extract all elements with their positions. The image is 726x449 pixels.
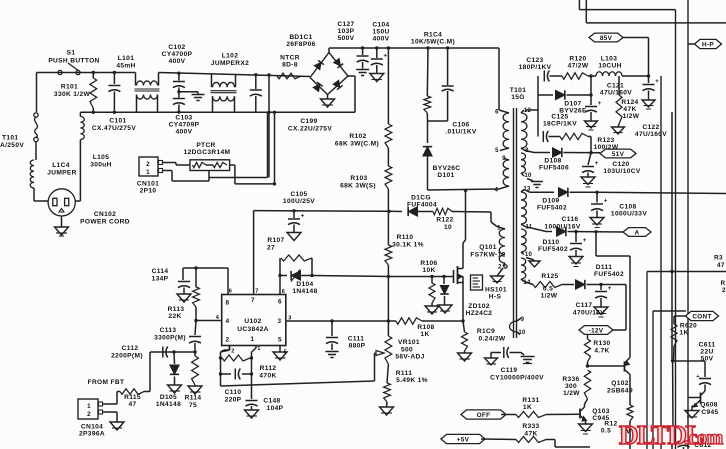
svg-text:3300P(M): 3300P(M): [154, 335, 186, 342]
svg-text:9: 9: [521, 317, 525, 323]
svg-text:.01U/1KV: .01U/1KV: [445, 129, 477, 136]
label R103: [340, 175, 376, 190]
svg-text:56V-ADJ: 56V-ADJ: [395, 354, 424, 361]
T101 pin 2: [498, 265, 502, 271]
svg-text:R333: R333: [522, 423, 539, 430]
svg-text:C103: C103: [175, 115, 192, 122]
inductor L103: [588, 72, 650, 78]
capacitor C148: [245, 401, 259, 419]
resistor R124: [612, 76, 625, 134]
svg-text:7: 7: [251, 297, 255, 304]
svg-text:47/2W: 47/2W: [568, 63, 589, 70]
label R3xx right: [714, 255, 725, 270]
label C114: [152, 268, 169, 283]
svg-text:300: 300: [565, 383, 577, 390]
svg-text:1000U/16V: 1000U/16V: [544, 224, 580, 231]
wire bridge plus: [329, 48, 499, 53]
capacitor C113: [189, 321, 201, 354]
watermark DLTDL.com: [619, 420, 724, 449]
svg-text:R1C9: R1C9: [477, 328, 495, 335]
svg-text:+: +: [595, 161, 599, 167]
svg-text:400V: 400V: [169, 58, 186, 65]
svg-text:4: 4: [495, 188, 499, 194]
zener ZD102: [438, 277, 452, 314]
svg-text:C106: C106: [452, 122, 469, 129]
svg-text:H-S: H-S: [489, 294, 502, 301]
wire node x269: [267, 73, 270, 177]
svg-text:FROM FBT: FROM FBT: [88, 379, 125, 386]
label R1C4: [411, 32, 455, 46]
T101 winding 13-11: [521, 190, 526, 227]
wire C611 top: [673, 361, 705, 377]
resistor R114: [188, 352, 202, 394]
IC U102: [222, 295, 286, 346]
svg-text:26F8P06: 26F8P06: [286, 41, 315, 48]
wire VR101 wiper: [221, 346, 375, 387]
svg-text:1/2W: 1/2W: [541, 293, 558, 300]
resistor R111: [380, 364, 394, 415]
svg-text:8D-8: 8D-8: [282, 62, 298, 69]
svg-text:134P: 134P: [152, 276, 169, 283]
svg-text:1: 1: [257, 346, 260, 352]
label C120: [603, 161, 640, 175]
wire pin1 drop: [252, 346, 257, 400]
svg-text:T101: T101: [510, 87, 526, 94]
thermistor NTCR: [277, 73, 301, 79]
wire bridge AC return: [276, 76, 355, 112]
ground bridge: [321, 95, 335, 108]
svg-text:R107: R107: [267, 237, 284, 244]
svg-text:Q101: Q101: [479, 244, 497, 251]
svg-text:NTCR: NTCR: [280, 55, 300, 62]
label L102: [211, 53, 249, 68]
resistor R1C4: [424, 46, 431, 121]
label D105: [156, 394, 181, 408]
label HS101: [485, 287, 507, 301]
svg-text:10CUH: 10CUH: [598, 63, 621, 70]
capacitor C116: [569, 232, 587, 267]
label R125: [541, 273, 559, 300]
svg-text:1N4148: 1N4148: [292, 288, 317, 295]
T101 winding 6-5: [499, 110, 509, 151]
svg-text:D105: D105: [160, 394, 177, 401]
flag OFF: [461, 410, 506, 419]
T101 winding 9-4: [499, 159, 509, 190]
ground Q608: [685, 406, 699, 418]
svg-text:L102: L102: [222, 53, 238, 60]
svg-text:R115: R115: [124, 394, 141, 401]
svg-text:CN102: CN102: [94, 211, 116, 218]
label NTCR: [280, 55, 300, 69]
svg-text:10: 10: [524, 173, 532, 179]
label C101: [116, 55, 135, 70]
label R114: [185, 395, 202, 410]
svg-text:47U/160V: 47U/160V: [600, 90, 632, 97]
svg-text:1: 1: [497, 226, 501, 232]
wire bus top1: [579, 0, 675, 10]
svg-text:47: 47: [717, 262, 725, 269]
svg-text:D107: D107: [564, 101, 581, 108]
capacitor C121: [585, 101, 602, 130]
svg-text:ZD102: ZD102: [468, 303, 490, 310]
wire rail to pin6: [498, 48, 500, 110]
resistor R12x: [627, 404, 633, 449]
heatsink HS101: [471, 275, 483, 290]
label D109: [537, 198, 567, 212]
svg-text:C121: C121: [607, 83, 624, 90]
label C102: [162, 44, 193, 65]
svg-text:+: +: [598, 101, 602, 107]
label D111: [594, 264, 624, 278]
resistor R125: [524, 282, 574, 288]
svg-text:100U/25V: 100U/25V: [283, 198, 315, 205]
svg-text:JUMPER: JUMPER: [47, 170, 77, 177]
svg-text:2P396A: 2P396A: [79, 431, 105, 438]
label R113: [168, 306, 185, 320]
svg-text:OFF: OFF: [477, 412, 491, 419]
T101 pin 13: [523, 187, 531, 193]
wire pin8 top: [183, 266, 228, 294]
label R333: [522, 423, 539, 438]
svg-text:1N4148: 1N4148: [156, 401, 181, 408]
resistor R108: [396, 318, 463, 324]
label L104: [47, 162, 77, 177]
svg-text:51V: 51V: [612, 151, 625, 158]
svg-text:R125: R125: [541, 273, 558, 280]
capacitor C125: [543, 131, 548, 142]
wire node x274.5: [273, 111, 276, 186]
svg-text:6: 6: [495, 110, 499, 116]
svg-text:C116: C116: [562, 216, 579, 223]
svg-text:300uH: 300uH: [90, 162, 112, 169]
svg-text:10K: 10K: [422, 267, 435, 274]
svg-text:L1C4: L1C4: [52, 162, 70, 169]
svg-text:9: 9: [502, 156, 506, 162]
svg-text:1000U/33V: 1000U/33V: [611, 211, 647, 218]
diode D109: [524, 188, 599, 197]
svg-text:C111: C111: [348, 336, 364, 343]
capacitor C612: [675, 430, 690, 449]
label R12x: [601, 421, 631, 436]
svg-text:8: 8: [226, 300, 230, 307]
svg-text:68K 3W(S): 68K 3W(S): [340, 183, 376, 190]
capacitor C114: [177, 268, 191, 302]
svg-text:+: +: [384, 54, 388, 60]
label D104: [292, 281, 317, 295]
label R336: [562, 376, 580, 397]
label D1C0: [407, 195, 437, 209]
resistor R131: [501, 412, 580, 418]
svg-text:D109: D109: [542, 198, 559, 205]
svg-text:+: +: [604, 199, 608, 205]
label R122: [436, 217, 453, 232]
diode D110: [525, 227, 623, 237]
svg-text:2SB649: 2SB649: [607, 388, 633, 395]
resistor R112: [219, 355, 253, 361]
svg-text:C108: C108: [619, 204, 636, 211]
svg-text:880P: 880P: [349, 343, 366, 350]
svg-text:R102: R102: [349, 133, 366, 140]
svg-text:U102: U102: [244, 318, 261, 325]
svg-text:A/250V: A/250V: [0, 142, 24, 149]
svg-text:H-P: H-P: [702, 41, 714, 48]
label Rxx right: [721, 280, 726, 294]
T101 pin 10a: [524, 173, 532, 179]
resistor R333: [481, 437, 590, 448]
T101 pin 4: [495, 188, 499, 194]
svg-text:R108: R108: [417, 324, 434, 331]
resistor R103: [385, 166, 392, 211]
capacitor C104: [370, 46, 388, 81]
label R115: [124, 394, 141, 408]
choke L101: [135, 73, 160, 113]
label Q608: [700, 402, 718, 417]
label C103: [169, 115, 200, 136]
label BD101: [286, 34, 315, 48]
svg-text:CONT: CONT: [692, 313, 711, 320]
wire bus v661: [660, 76, 662, 449]
svg-text:D110: D110: [543, 239, 560, 246]
T101 pin 8: [525, 148, 529, 154]
svg-text:22K: 22K: [168, 313, 181, 320]
transistor Q608: [688, 391, 706, 407]
flag CONT: [674, 311, 719, 320]
T101 pin 10b: [525, 252, 533, 258]
svg-text:2: 2: [226, 337, 230, 344]
svg-text:2: 2: [722, 287, 726, 294]
svg-text:12DGC3R14M: 12DGC3R14M: [184, 149, 231, 156]
label C110: [225, 389, 242, 404]
label C199: [288, 118, 332, 133]
T101 pin 10c: [518, 330, 526, 336]
label R111: [396, 370, 428, 384]
svg-text:1: 1: [146, 169, 150, 176]
svg-text:5.49K 1%: 5.49K 1%: [396, 377, 428, 384]
diode D1C0: [389, 207, 433, 216]
svg-text:45mH: 45mH: [116, 63, 135, 70]
svg-text:CY10000P/400V: CY10000P/400V: [490, 375, 544, 382]
svg-text:C127: C127: [337, 21, 354, 28]
T101 pin 9: [502, 156, 506, 162]
resistor R102: [385, 46, 392, 166]
label C122: [635, 124, 667, 138]
svg-text:A: A: [635, 229, 640, 236]
T101 pin 9b: [521, 317, 525, 323]
svg-text:R112: R112: [260, 365, 277, 372]
label Q102: [607, 380, 633, 395]
svg-text:R110: R110: [397, 234, 414, 241]
label R109: [477, 328, 506, 343]
svg-text:2200P(M): 2200P(M): [111, 353, 143, 360]
connector CN104: [78, 399, 103, 419]
svg-text:CX.22U/275V: CX.22U/275V: [288, 126, 332, 133]
svg-text:+: +: [583, 238, 587, 244]
svg-text:6: 6: [229, 289, 232, 295]
wire cont corner: [653, 311, 686, 449]
label C123: [519, 57, 552, 71]
svg-text:R123: R123: [597, 137, 614, 144]
diode D107: [538, 90, 593, 99]
capacitor C106: [428, 46, 454, 121]
svg-text:R106: R106: [420, 260, 437, 267]
ground pin5: [273, 346, 287, 361]
svg-text:330K 1/2W: 330K 1/2W: [54, 91, 91, 98]
capacitor C119: [485, 347, 535, 365]
label C116: [544, 216, 580, 231]
capacitor C102: [173, 72, 185, 94]
svg-text:7: 7: [255, 289, 258, 295]
wire CN101 to PTCR: [163, 163, 210, 182]
capacitor C199: [250, 73, 262, 112]
svg-text:C117: C117: [576, 302, 593, 309]
svg-text:400V: 400V: [373, 36, 390, 43]
svg-text:68K 3W(C.M): 68K 3W(C.M): [335, 141, 379, 148]
svg-text:C110: C110: [225, 389, 242, 396]
capacitor C611: [696, 374, 711, 391]
wire gate: [388, 275, 453, 278]
svg-text:27: 27: [267, 245, 275, 252]
inductor L105: [80, 112, 84, 139]
resistor R122: [433, 208, 497, 226]
wire chain mid: [387, 277, 390, 337]
svg-text:JUMPERX2: JUMPERX2: [211, 60, 249, 67]
svg-text:R130: R130: [593, 340, 610, 347]
label R131: [522, 397, 539, 411]
wire bus v675: [675, 10, 677, 449]
connector CN101: [139, 157, 163, 176]
T101 pin 11: [525, 225, 532, 231]
resistor R101: [90, 71, 97, 114]
label R112: [259, 365, 276, 380]
svg-text:220P: 220P: [225, 397, 242, 404]
U102 pin numbers: [226, 297, 283, 344]
svg-text:L105: L105: [93, 154, 109, 161]
wire CN104 pin1: [103, 392, 118, 405]
wire PTCR out bottom: [209, 112, 268, 177]
svg-text:5: 5: [278, 337, 282, 344]
flag -12V: [579, 285, 626, 335]
svg-text:3: 3: [278, 318, 282, 325]
svg-text:10K/5W(C.M): 10K/5W(C.M): [411, 39, 455, 46]
svg-text:6: 6: [278, 299, 282, 306]
svg-text:+: +: [696, 374, 700, 380]
svg-text:R3: R3: [714, 255, 723, 262]
wire cont rail: [647, 272, 726, 449]
svg-text:C125: C125: [551, 114, 568, 121]
label R107: [267, 237, 285, 252]
svg-text:103U/10CV: 103U/10CV: [603, 168, 640, 175]
svg-text:12: 12: [524, 108, 532, 114]
wire pin4: [196, 320, 222, 322]
resistor R120: [550, 73, 593, 79]
wire bus v688: [687, 0, 689, 449]
svg-text:-12V: -12V: [589, 327, 604, 334]
resistor R107: [280, 255, 312, 276]
label CN101: [137, 181, 159, 195]
label C104: [372, 22, 389, 43]
svg-text:1K: 1K: [523, 404, 532, 411]
svg-text:4: 4: [226, 318, 230, 325]
wire top AC rail: [37, 73, 311, 77]
svg-text:C114: C114: [152, 268, 169, 275]
label D108: [539, 158, 569, 172]
svg-text:10: 10: [444, 224, 452, 231]
T101 pin 6: [495, 110, 499, 116]
svg-text:1: 1: [251, 336, 255, 343]
svg-text:.com: .com: [684, 427, 724, 449]
svg-text:C120: C120: [612, 161, 629, 168]
svg-text:R114: R114: [185, 395, 202, 402]
label C108: [611, 204, 647, 218]
label R106: [420, 260, 437, 274]
label C611: [699, 342, 716, 363]
capacitor C117: [594, 285, 612, 318]
capacitor C111: [326, 321, 339, 358]
svg-text:47: 47: [128, 401, 136, 408]
svg-text:0.5: 0.5: [543, 286, 553, 293]
svg-text:D108: D108: [544, 158, 561, 165]
diode D104: [280, 270, 314, 282]
svg-text:2P10: 2P10: [140, 188, 157, 195]
svg-text:C945: C945: [701, 409, 718, 416]
label ZD102: [466, 303, 493, 317]
svg-text:C104: C104: [372, 22, 389, 29]
svg-text:CY4709P: CY4709P: [169, 122, 200, 129]
svg-text:C123: C123: [526, 57, 543, 64]
svg-text:1K: 1K: [420, 331, 429, 338]
label R108: [417, 324, 434, 338]
svg-text:2: 2: [231, 349, 234, 355]
capacitor C120: [581, 153, 599, 187]
capacitor C112: [163, 347, 168, 358]
svg-text:PTCR: PTCR: [196, 142, 215, 149]
label R130: [593, 340, 610, 355]
wire pin6 to gate: [312, 276, 388, 277]
wire pin12 right: [525, 110, 538, 137]
svg-text:180P/1KV: 180P/1KV: [519, 64, 552, 71]
U102 stub labels: [216, 289, 292, 356]
T101 pin 5: [495, 148, 499, 154]
svg-text:104P: 104P: [267, 405, 284, 412]
label FROM FBT: [88, 379, 125, 386]
wire PTCR out right: [230, 165, 275, 184]
label C121: [600, 83, 632, 97]
svg-text:47K: 47K: [524, 431, 537, 438]
diode D105: [168, 352, 182, 393]
svg-text:2: 2: [87, 411, 91, 418]
label U102: [237, 318, 268, 333]
label C113: [154, 327, 186, 342]
capacitor C108: [590, 192, 608, 227]
label S1: [48, 50, 99, 65]
svg-text:470K: 470K: [259, 373, 276, 380]
label D110: [538, 239, 568, 253]
svg-text:D111: D111: [596, 264, 612, 271]
wire R108 run: [286, 319, 396, 322]
diode D111: [576, 280, 627, 289]
label C612: [694, 442, 711, 449]
T101 winding 8-10: [521, 153, 526, 176]
svg-text:L101: L101: [118, 55, 134, 62]
svg-text:0.24/2W: 0.24/2W: [478, 336, 505, 343]
svg-text:HZ24C2: HZ24C2: [466, 310, 493, 317]
svg-text:R12: R12: [604, 421, 617, 428]
svg-text:L103: L103: [601, 56, 617, 63]
svg-text:50V: 50V: [701, 356, 714, 363]
wire bus v672: [670, 112, 674, 449]
label L103: [598, 56, 621, 70]
label D101: [433, 165, 461, 179]
